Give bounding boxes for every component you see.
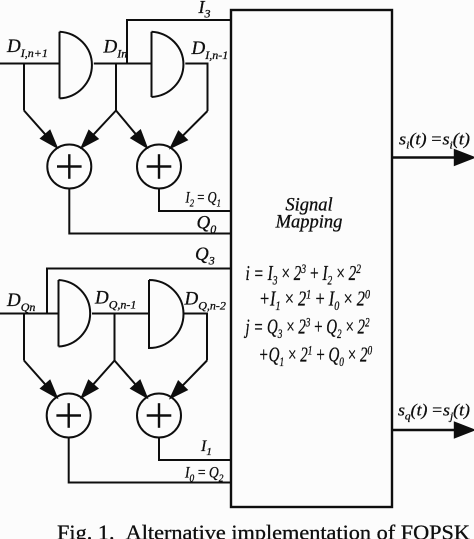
wire: center branch from D_I,n down bbox=[115, 64, 117, 111]
svg-text:+Q1 × 21 + Q0 × 20: +Q1 × 21 + Q0 × 20 bbox=[259, 343, 373, 369]
signal mapping box U1 bbox=[231, 10, 392, 507]
wire: D_Q,n input to delay D3 bbox=[0, 313, 59, 315]
svg-text:si(t) =si(t): si(t) =si(t) bbox=[399, 130, 470, 152]
XOR adder A1 bbox=[47, 145, 91, 189]
arrow: D_I,n-1 to adder A2 bbox=[171, 111, 208, 148]
arrow: D_Q,n to adder A3 bbox=[24, 361, 57, 398]
delay element D1 (D_I stage 1) bbox=[60, 32, 92, 99]
arrow: D_I,n+1 to adder A1 bbox=[24, 111, 57, 148]
arrow: D_I,n to adder A2 bbox=[116, 111, 147, 148]
wire: node D_I,n between D1 and D2 bbox=[94, 63, 152, 65]
wire: adder A2 output I_2=Q_1 to box bbox=[159, 189, 231, 212]
wire: I_3 tap riser and line to box bbox=[127, 20, 231, 64]
wire: node D_I,n-1 after D2 bbox=[185, 64, 207, 112]
wire: left branch from D_I,n+1 down bbox=[23, 64, 25, 111]
svg-text:Fig. 1. Alternative implement: Fig. 1. Alternative implementation of FQ… bbox=[57, 521, 470, 539]
wire: center branch from D_Q,n-1 down bbox=[114, 314, 116, 361]
delay element D3 (D_Q stage 1) bbox=[59, 280, 91, 347]
svg-text:Mapping: Mapping bbox=[275, 213, 343, 233]
arrow: output s_i(t) bbox=[392, 151, 473, 165]
arrow: D_Q,n-1 to adder A3 bbox=[82, 361, 115, 398]
wire: adder A3 output I_0=Q_2 to box bbox=[69, 438, 231, 483]
wire: adder A4 output I_1 to box bbox=[159, 438, 231, 461]
arrow: D_Q,n-2 to adder A4 bbox=[171, 361, 207, 398]
arrow: output s_q(t) bbox=[392, 423, 473, 437]
wire: adder A1 output Q_0 to box bbox=[69, 189, 231, 234]
wire: left branch from D_Q,n down bbox=[23, 314, 25, 361]
XOR adder A2 bbox=[137, 145, 181, 189]
delay element D4 (D_Q stage 2) bbox=[149, 280, 184, 348]
wire: node D_Q,n-2 after D4 bbox=[184, 314, 208, 361]
arrow: D_I,n to adder A1 bbox=[82, 111, 116, 148]
wire: D_I,n+1 input to delay D1 bbox=[0, 63, 60, 65]
delay element D2 (D_I stage 2) bbox=[152, 32, 184, 97]
wire: node D_Q,n-1 between D3 and D4 bbox=[92, 313, 149, 315]
XOR adder A4 bbox=[137, 394, 181, 438]
XOR adder A3 bbox=[47, 394, 91, 438]
arrow: D_Q,n-1 to adder A4 bbox=[115, 361, 147, 398]
wire: Q_3 tap line to box bbox=[47, 269, 231, 314]
